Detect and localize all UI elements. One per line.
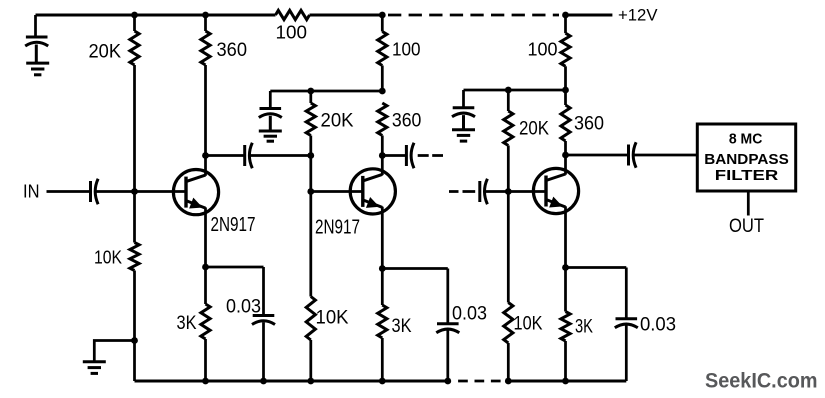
svg-text:10K: 10K bbox=[514, 313, 543, 335]
capacitor coupling stage2 output bbox=[406, 143, 414, 168]
resistor 360 stage1 bbox=[201, 31, 210, 65]
svg-text:10K: 10K bbox=[94, 248, 122, 268]
node bottom rail / 0.03 stage1 bbox=[260, 378, 267, 385]
transistor Q1 2N917 bbox=[173, 170, 218, 215]
node Q1 base bbox=[131, 188, 138, 195]
capacitor coupling stage1-stage2 bbox=[245, 143, 253, 168]
wire stage3 bypass cap drop bbox=[462, 90, 465, 108]
node Q3 collector bbox=[562, 152, 569, 159]
wire stage1 emitter row bbox=[206, 266, 264, 269]
ground (stage1 bias divider) bbox=[83, 362, 106, 374]
node stage2 rail / 20K bbox=[307, 88, 314, 95]
wire 10K stage3 bottom stub bbox=[507, 343, 510, 381]
node Q3 base bbox=[505, 188, 512, 195]
svg-text:BANDPASS: BANDPASS bbox=[704, 152, 789, 168]
wire 20K stage1 bottom to base node bbox=[133, 65, 136, 192]
resistor 3K stage3 bbox=[561, 312, 570, 342]
capacitor 0.03 stage1 bbox=[252, 267, 275, 381]
capacitor 0.03 stage2 bbox=[436, 269, 459, 382]
node Q1 collector bbox=[202, 152, 209, 159]
ground (stage3 bypass capacitor) bbox=[452, 130, 475, 141]
wire dashed stage2 output stub bbox=[418, 154, 443, 157]
wire stage3 internal rail bbox=[464, 89, 566, 92]
svg-text:OUT: OUT bbox=[729, 216, 764, 237]
resistor 360 stage3 bbox=[561, 105, 570, 141]
node Q3 emitter bbox=[562, 264, 569, 271]
wire Q2 emitter bbox=[381, 207, 384, 269]
resistor 20K stage2 bbox=[306, 103, 315, 136]
wire left bypass capacitor drop bbox=[34, 15, 37, 37]
svg-text:IN: IN bbox=[23, 182, 40, 202]
svg-text:+12V: +12V bbox=[618, 6, 658, 25]
ground (left bypass capacitor) bbox=[26, 63, 49, 75]
resistor 20K stage1 bbox=[130, 31, 139, 65]
resistor 100 stage3 (vertical) bbox=[561, 33, 570, 66]
wire 20K stage3 bottom to base node and 10K bbox=[507, 146, 510, 303]
wire 100 stage3 top stub bbox=[564, 15, 567, 33]
transistor Q3 bbox=[533, 168, 578, 213]
wire 10K stage2 bottom stub bbox=[309, 340, 312, 381]
node stage2 coupling bbox=[307, 152, 314, 159]
wire bottom rail solid left bbox=[135, 380, 448, 383]
capacitor bypass stage2 bbox=[259, 109, 282, 132]
svg-text:3K: 3K bbox=[575, 316, 593, 338]
node bottom rail / 3K stage1 bbox=[202, 378, 209, 385]
wire 20K stage2 bottom through coupling and base nodes bbox=[309, 136, 312, 297]
resistor 10K stage2 bbox=[306, 297, 315, 341]
capacitor coupling stage3 input bbox=[480, 179, 488, 204]
wire Q1 collector bbox=[204, 156, 207, 176]
wire 360 stage1 top stub bbox=[204, 15, 207, 31]
wire 10K stage1 top stub bbox=[133, 192, 136, 243]
wire dashed stage3 base input stub bbox=[449, 190, 475, 193]
wire IN lead bbox=[47, 190, 90, 193]
svg-text:10K: 10K bbox=[316, 307, 349, 329]
node bottom rail / 10K stage2 bbox=[307, 378, 314, 385]
svg-text:FILTER: FILTER bbox=[715, 168, 779, 184]
resistor 20K stage3 bbox=[504, 111, 513, 146]
wire coupling cap to stage2 bias column bbox=[250, 154, 311, 157]
wire top rail right segment to +12V bbox=[566, 14, 613, 17]
resistor 10K stage1 bbox=[130, 243, 139, 271]
resistor 3K stage1 bbox=[201, 304, 210, 339]
node Q2 collector bbox=[379, 152, 386, 159]
node Q2 emitter bbox=[379, 265, 386, 272]
wire 100 stage2 top stub bbox=[381, 15, 384, 32]
wire stage2 internal rail bbox=[270, 90, 382, 93]
node top rail / 100 stage3 bbox=[562, 12, 569, 19]
capacitor 0.03 stage3 bbox=[615, 268, 638, 382]
wire stage2 emitter row bbox=[382, 267, 448, 270]
node top rail / 100 stage2 bbox=[379, 12, 386, 19]
wire base node stage1 to transistor base bbox=[135, 190, 187, 193]
svg-text:100: 100 bbox=[392, 40, 421, 60]
capacitor bypass stage3 bbox=[452, 108, 475, 130]
node stage3 rail / 20K bbox=[505, 87, 512, 94]
svg-text:360: 360 bbox=[392, 110, 422, 132]
wire stage2 bypass cap drop bbox=[269, 91, 272, 109]
wire 3K stage1 top stub bbox=[204, 267, 207, 304]
wire base node stage3 to transistor base bbox=[508, 190, 546, 193]
wire ground branch stage1 bbox=[94, 341, 134, 362]
transistor Q2 2N917 bbox=[350, 169, 395, 214]
wire 3K stage3 stubs bbox=[564, 268, 567, 382]
wire 20K stage1 top stub bbox=[133, 15, 136, 31]
wire bottom rail solid right bbox=[508, 380, 626, 383]
svg-text:8 MC: 8 MC bbox=[729, 132, 763, 148]
wire 3K stage1 bottom stub bbox=[204, 339, 207, 381]
wire stage1 collector to coupling cap bbox=[206, 154, 245, 157]
svg-text:2N917: 2N917 bbox=[211, 213, 256, 236]
svg-text:100: 100 bbox=[528, 40, 558, 60]
svg-text:3K: 3K bbox=[392, 315, 412, 337]
wire 360 stage1 bottom to collector node bbox=[204, 65, 207, 156]
node bottom rail / 3K stage2 bbox=[379, 378, 386, 385]
box 8MC bandpass filter bbox=[697, 124, 795, 191]
wire stage2 collector to output coupling cap bbox=[382, 154, 406, 157]
wire 10K stage1 bottom through ground node to bottom rail bbox=[133, 271, 136, 382]
resistor 100 (horizontal, top rail) bbox=[276, 10, 310, 19]
wire stage3 emitter row bbox=[566, 266, 627, 269]
wire Q2 collector bbox=[381, 156, 384, 176]
node Q2 base bbox=[307, 188, 314, 195]
wire 100 stage3 bottom stub bbox=[564, 66, 567, 90]
capacitor C-left (bypass at +12V rail) bbox=[25, 37, 48, 63]
wire 20K stage3 top stub bbox=[507, 90, 510, 111]
node Q1 emitter bbox=[202, 264, 209, 271]
wire top rail left segment (+12V bus) bbox=[36, 14, 276, 17]
node stage1 ground junction bbox=[131, 337, 138, 344]
wire Q3 emitter bbox=[564, 206, 567, 267]
node stage3 rail / 360 bbox=[562, 87, 569, 94]
wire top rail middle segment bbox=[310, 14, 383, 17]
svg-text:20K: 20K bbox=[321, 110, 354, 132]
capacitor output coupling bbox=[629, 142, 637, 167]
wire output cap to filter box bbox=[634, 154, 697, 157]
svg-text:360: 360 bbox=[217, 39, 248, 61]
node top rail / 20K stage1 bbox=[131, 12, 138, 19]
wire base node stage2 to transistor base bbox=[311, 190, 363, 193]
svg-text:SeekIC.com: SeekIC.com bbox=[705, 369, 818, 393]
svg-text:2N917: 2N917 bbox=[315, 216, 360, 239]
svg-text:0.03: 0.03 bbox=[226, 297, 261, 318]
node stage2 rail / 360 bbox=[379, 88, 386, 95]
node bottom rail / 3K stage3 bbox=[562, 378, 569, 385]
node top rail / 360 stage1 bbox=[202, 12, 209, 19]
wire top rail dashed segment bbox=[388, 14, 559, 17]
svg-text:0.03: 0.03 bbox=[640, 315, 676, 336]
wire 100 stage2 bottom stub bbox=[381, 66, 384, 92]
resistor 3K stage2 bbox=[378, 305, 387, 338]
wire Q3 collector bbox=[564, 155, 567, 175]
wire 20K stage2 top stub bbox=[309, 91, 312, 103]
node bottom rail / 0.03 stage2 bbox=[444, 378, 451, 385]
wire 3K stage2 stubs bbox=[381, 269, 384, 382]
wire 360 stage2 bottom to collector node bbox=[381, 136, 384, 156]
wire bottom rail dashed segment bbox=[458, 380, 501, 383]
resistor 360 stage2 bbox=[378, 103, 387, 136]
svg-text:20K: 20K bbox=[89, 41, 122, 63]
wire stage3 input cap to base node bbox=[485, 190, 508, 193]
svg-text:100: 100 bbox=[276, 23, 308, 43]
resistor 100 stage2 (vertical) bbox=[378, 32, 387, 66]
wire Q1 emitter bbox=[204, 207, 207, 267]
ground (stage2 bypass capacitor) bbox=[259, 131, 282, 141]
capacitor input coupling (IN) bbox=[91, 179, 99, 204]
svg-text:3K: 3K bbox=[177, 312, 197, 334]
svg-text:0.03: 0.03 bbox=[452, 304, 487, 325]
svg-text:20K: 20K bbox=[519, 118, 549, 140]
wire 360 stage3 stubs bbox=[564, 90, 567, 155]
wire stage3 collector to output cap bbox=[566, 154, 629, 157]
node bottom rail / 10K stage3 bbox=[505, 378, 512, 385]
svg-text:360: 360 bbox=[574, 113, 604, 135]
wire input cap to base node stage1 bbox=[96, 190, 135, 193]
resistor 10K stage3 bbox=[504, 303, 513, 344]
wire filter output stem bbox=[747, 191, 750, 216]
